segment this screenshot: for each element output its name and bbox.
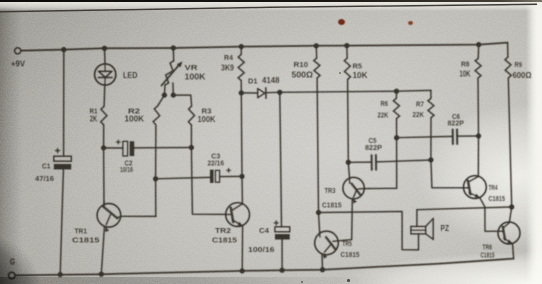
wire: node L to TR6 collector <box>509 207 511 222</box>
wire: rail corner to R9 <box>507 43 509 57</box>
terminal +9V <box>11 48 25 69</box>
junction on rail at R8 <box>476 42 481 47</box>
bottom right white area <box>300 250 542 284</box>
wire: node E to D1 <box>241 92 257 94</box>
wire: node G to C6 <box>397 136 452 137</box>
resistor R1 <box>90 106 107 125</box>
top black band <box>0 0 542 2</box>
resistor R4 <box>221 53 244 81</box>
resistor R7 <box>413 90 435 119</box>
junction on rail at R10 <box>314 43 319 48</box>
junction on rail at R5 <box>344 43 349 48</box>
speck 3 <box>339 72 341 74</box>
node A junction (R1/C2/TR1 collector) <box>101 145 106 150</box>
resistor R6 <box>378 91 400 119</box>
wire: R2 to node C <box>155 125 157 179</box>
wire: node F to R6/R7 tops <box>280 90 431 92</box>
wire: TR5 base to TR3 emitter <box>333 240 352 242</box>
node L junction (R9/TR4 emitter line/TR6 collector) <box>509 204 514 209</box>
wire: node A to C2 <box>104 147 123 149</box>
node K junction (R5/C5/TR3 collector) <box>346 160 351 165</box>
right page edge white strip <box>526 0 542 284</box>
wire: node E to node D (TR2 collector) <box>241 93 242 203</box>
wire: node K to TR3 collector <box>348 162 349 177</box>
wire: TR2 emitter to ground rail <box>241 226 243 271</box>
resistor R3 <box>188 106 215 125</box>
resistor R2 <box>125 106 160 125</box>
speck 2 <box>301 281 303 283</box>
node E junction (R4/D1) <box>239 90 244 95</box>
wire: VR to R3 <box>173 95 191 106</box>
wire: page top rule <box>0 4 537 12</box>
wire: C4 to ground rail <box>281 240 283 271</box>
node C junction (R2/C3/TR1 base) <box>153 176 158 181</box>
wire: R8 to node I <box>477 78 480 136</box>
resistor R8 <box>460 58 482 78</box>
wire: TR1 base to node C <box>121 215 156 217</box>
wire: rail to R5 <box>346 46 348 58</box>
transistor TR3 <box>322 177 364 209</box>
node G junction (R6/C6) <box>394 135 399 140</box>
wire: PZ top terminal <box>416 210 418 227</box>
wire: rail to R8 <box>477 45 480 59</box>
wire: R1 to node A <box>103 125 105 148</box>
wire: node C to C3 <box>156 177 210 178</box>
wire: TR1 emitter to ground rail <box>101 227 104 274</box>
wire: TR3 base to R6 line <box>364 187 397 189</box>
node F junction (D1/C4/R6R7 feed) <box>277 90 282 95</box>
junction on rail at R4 <box>239 44 244 49</box>
capacitor C2 <box>116 140 134 174</box>
junction ground at TR1 emitter <box>99 272 104 277</box>
wire: TR5 emitter to ground rail <box>321 254 324 270</box>
node I junction (C6/R8) <box>476 133 481 138</box>
junction VR right <box>171 92 176 97</box>
node B junction (C2/R3) <box>189 145 194 150</box>
junction ground at C4 <box>279 268 284 273</box>
wire: TR6 emitter to ground rail <box>513 244 514 259</box>
wire: D1 to node F <box>267 91 280 93</box>
wire: node K to C5 <box>348 161 371 163</box>
node H junction (R7/C5) <box>428 157 433 162</box>
node D junction (C3/TR2 collector line) <box>239 174 244 179</box>
resistor R5 <box>344 58 367 80</box>
stain spot 2 <box>408 21 413 25</box>
wire: C3 to node D <box>220 175 242 177</box>
capacitor C5 <box>365 138 382 170</box>
wire: R10 to node J <box>317 78 318 213</box>
speck 1 <box>347 279 350 282</box>
piezo speaker PZ <box>411 219 449 240</box>
transistor TR2 <box>212 203 250 245</box>
wire: R4 to node E <box>240 81 242 93</box>
wire: node G to TR3 base line <box>396 138 398 189</box>
junction on rail at VR <box>171 45 176 50</box>
capacitor C1 <box>35 148 71 183</box>
wire: LED to R1 <box>103 85 106 106</box>
resistor R9 <box>505 57 532 80</box>
light paper strip above top rule <box>0 2 542 11</box>
wire: node F to C4 <box>280 92 282 227</box>
wire: VR to R2 <box>158 95 165 106</box>
LED <box>95 64 138 85</box>
wire: TR4 emitter to TR6 base <box>480 198 498 231</box>
transistor TR1 <box>72 202 121 245</box>
wire: C5 to node H <box>377 160 431 162</box>
wire: rail to VR <box>172 48 174 61</box>
capacitor C6 <box>448 114 465 144</box>
junction R6 top <box>394 89 399 94</box>
wire: ground bottom rail <box>15 259 513 276</box>
capacitor C4 <box>248 220 290 254</box>
wire: node C to TR1 base <box>155 179 157 217</box>
wire: PZ to node L (TR6 collector) <box>417 207 512 210</box>
junction ground at C1 <box>58 272 63 277</box>
capacitor C3 <box>208 153 232 183</box>
wire: R7 to node H <box>430 118 432 160</box>
terminal G (ground) <box>9 256 16 279</box>
wire: R9 to node L <box>508 78 511 207</box>
junction on rail at LED <box>102 46 107 51</box>
wire: rail to R10 <box>315 46 318 58</box>
wire: rail to LED <box>104 48 107 64</box>
transistor TR6 <box>481 222 521 259</box>
wire: R8/node I to TR4 collector <box>477 136 479 176</box>
wire: C2 to node B <box>134 147 191 149</box>
wire: node A to TR1 collector <box>103 148 105 204</box>
wire: node J to TR5 collector <box>319 213 320 232</box>
transistor TR4 <box>464 176 506 203</box>
transistor TR5 <box>315 231 360 259</box>
node J junction (R10/TR5 collector/PZ feed) <box>316 210 321 215</box>
wire: node J to PZ bottom terminal <box>319 212 419 250</box>
wire: C6 to node I <box>458 135 479 137</box>
junction ground at TR5 emitter <box>320 267 325 272</box>
wire: rail to R4 <box>240 47 242 55</box>
wire: TR3 emitter to TR5 base <box>351 198 354 239</box>
wire: R5 to node K <box>347 80 350 163</box>
wire: rail to C1 <box>63 50 65 156</box>
resistor R10 <box>292 58 321 80</box>
potentiometer VR <box>162 61 206 95</box>
junction on rail at C1 <box>61 47 66 52</box>
wire: R6 to node G <box>396 119 398 138</box>
junction ground at TR2 emitter <box>240 268 245 273</box>
wire: +9V top supply rail <box>21 43 507 51</box>
wire: R3 through node B down to TR2 base <box>191 125 226 214</box>
junction VR left <box>162 92 167 97</box>
wire: node H to TR4 base <box>431 160 464 188</box>
diode D1 <box>248 75 280 98</box>
wire: C1 to ground rail <box>60 170 63 275</box>
stain spot 1 <box>338 19 345 25</box>
